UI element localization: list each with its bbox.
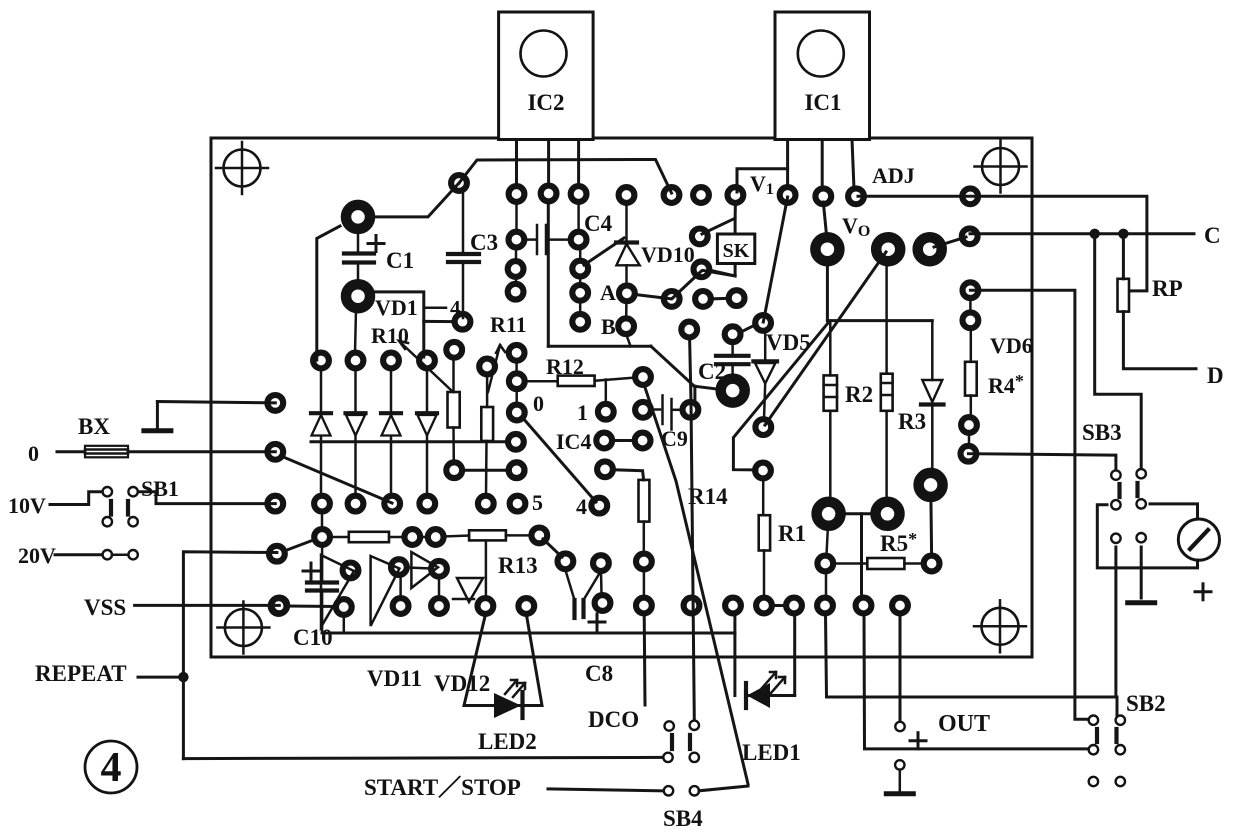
switch SB1 <box>103 487 138 526</box>
resistor R4 leads <box>969 328 971 446</box>
capacitor C2 <box>716 342 749 379</box>
ground symbol SB3 <box>1125 600 1157 605</box>
svg-text:20V: 20V <box>18 543 56 568</box>
wire pin pad to SK <box>734 203 737 218</box>
wire R4 pad to SB3 <box>968 454 1116 470</box>
svg-text:4: 4 <box>576 494 587 519</box>
mounting hole top-left <box>216 142 268 194</box>
svg-text:START／STOP: START／STOP <box>364 774 521 800</box>
pads: bottom row left <box>271 598 534 615</box>
resistor R3 body <box>881 374 893 411</box>
svg-text:R1: R1 <box>778 521 806 546</box>
wire C junction to SB3 <box>1095 234 1142 469</box>
plus mark OUT <box>910 733 926 749</box>
wire column x580 links <box>579 247 582 314</box>
pads: mid row 568 <box>343 559 447 578</box>
pads: diode row tops <box>313 342 495 375</box>
pads: R1/VD5 chain <box>755 419 939 571</box>
svg-text:R3: R3 <box>898 409 926 434</box>
svg-text:4: 4 <box>101 745 122 791</box>
pad wire bend <box>451 175 467 191</box>
capacitor C1 <box>344 230 374 283</box>
potentiometer RP body <box>1118 279 1130 312</box>
svg-text:VD1: VD1 <box>375 295 418 320</box>
svg-text:C3: C3 <box>470 230 498 255</box>
pad B <box>618 318 634 334</box>
wire OUT minus <box>864 614 1089 749</box>
potentiometer RP lead top <box>1122 234 1125 279</box>
wire 0 input to pad <box>57 450 275 453</box>
wire pad to VD10 anode <box>584 238 624 265</box>
diode VD12 pair <box>411 552 483 602</box>
ground symbol OUT <box>884 770 916 794</box>
svg-text:0: 0 <box>533 391 544 416</box>
open contact pair 20V <box>103 550 138 559</box>
wire big pad2 to pad <box>355 309 356 353</box>
capacitor C10 <box>307 545 337 633</box>
wire pad pair row537 <box>420 536 428 539</box>
pads: row 537 <box>314 528 547 545</box>
capacitor C4 <box>524 225 571 254</box>
voltage regulator IC1 package <box>775 12 870 140</box>
svg-text:LED1: LED1 <box>742 740 801 765</box>
wire R5 left pad links <box>826 525 828 597</box>
net from IC2 pin2 to C2/C9 junction <box>548 202 694 386</box>
wire VSS to pad <box>135 604 280 607</box>
LED2 symbol <box>494 680 525 718</box>
svg-text:VSS: VSS <box>84 595 126 620</box>
wire to SB4 middle-left <box>183 757 663 758</box>
wire SB3 bottom-right to ground <box>1140 547 1143 598</box>
resistor R4 body <box>965 362 977 396</box>
wire pad link <box>600 571 603 594</box>
svg-text:C: C <box>1204 223 1221 248</box>
wire big pad to C rail pad <box>934 237 966 247</box>
wire R14 to pads chain <box>643 522 646 597</box>
svg-text:SB2: SB2 <box>1126 691 1166 716</box>
wire SB1 to board pad <box>138 492 275 504</box>
svg-text:VD11: VD11 <box>367 666 422 691</box>
wire REPEAT <box>138 676 183 679</box>
meter symbol <box>1178 519 1219 560</box>
svg-text:BX: BX <box>78 414 110 439</box>
wire C1 pad down-left leg <box>317 226 340 360</box>
potentiometer RP lead bottom to D <box>1123 312 1196 369</box>
plus mark battery <box>1195 584 1211 600</box>
resistor R14 body <box>639 480 650 522</box>
capacitor C9 <box>651 395 682 429</box>
svg-text:VD6: VD6 <box>990 333 1033 358</box>
wire VSS pad to pad <box>288 605 335 609</box>
svg-text:0: 0 <box>28 441 39 466</box>
wire diagonal to SB4 bottom <box>645 386 749 784</box>
mounting hole bottom-left <box>217 602 269 654</box>
svg-text:C1: C1 <box>386 248 414 273</box>
LED1 symbol <box>746 672 785 708</box>
wire SB3 mid-right to meter <box>1150 504 1198 519</box>
resistor R2 body <box>824 375 837 410</box>
wire column link x322 <box>321 512 324 528</box>
diode VD10 <box>616 203 640 285</box>
arrow R11 to resistor <box>488 345 505 392</box>
wire R12 drop to pad 1 <box>605 380 608 404</box>
battery box SB3 <box>1097 505 1197 568</box>
svg-text:IC4: IC4 <box>556 429 591 454</box>
big pads <box>346 205 943 526</box>
wire ADJ rail to RP wiper <box>858 196 1147 291</box>
switch SB2 <box>1089 716 1125 787</box>
svg-text:VD10: VD10 <box>641 242 695 267</box>
wire 0 net line <box>311 440 508 443</box>
speaker SK cone <box>702 218 735 276</box>
svg-text:IC2: IC2 <box>527 90 564 115</box>
link pads right column <box>969 298 972 313</box>
LED2 legs <box>464 613 542 706</box>
wire OUT rail <box>826 614 1118 715</box>
switch SB4 <box>663 721 699 796</box>
svg-text:R13: R13 <box>498 553 538 578</box>
pads: right column <box>961 228 979 461</box>
plus mark C10 <box>303 563 319 579</box>
resistor R1 body <box>759 515 770 550</box>
svg-text:C10: C10 <box>293 625 333 650</box>
PCB board outline <box>211 138 1032 657</box>
wire between output big pads <box>839 512 876 515</box>
svg-text:D: D <box>1207 363 1224 388</box>
svg-text:C4: C4 <box>584 211 613 236</box>
wire 20V to open contacts <box>55 553 103 556</box>
plus mark C1 <box>368 236 384 252</box>
wire pin3 to C4 pad <box>577 202 580 231</box>
capacitor C8 <box>565 570 601 618</box>
wire pin2 to VO pad <box>823 202 827 240</box>
svg-text:C8: C8 <box>585 661 613 686</box>
resistor R5 body <box>867 558 904 569</box>
svg-text:VD12: VD12 <box>434 671 490 696</box>
wire V1 pad diagonal to VD5 <box>763 197 787 322</box>
wire bus horizontal <box>827 319 932 322</box>
wire SK lower pad to cone <box>709 270 735 276</box>
wire IC4 pads link <box>613 439 634 442</box>
svg-text:OUT: OUT <box>938 711 990 737</box>
svg-text:SB4: SB4 <box>663 806 703 831</box>
svg-text:LED2: LED2 <box>478 729 537 754</box>
voltage regulator IC2 package <box>499 12 593 140</box>
svg-text:R11: R11 <box>490 312 527 337</box>
svg-text:SB1: SB1 <box>141 476 179 501</box>
resistor R1 leads <box>762 478 765 597</box>
resistor R2 leads <box>829 321 832 502</box>
wire pads row 298 <box>711 297 729 301</box>
svg-text:ADJ: ADJ <box>872 163 915 188</box>
wire big pad diagonal to VD5 pad <box>765 252 886 425</box>
rectifier diodes VD1-VD4 row <box>311 369 437 496</box>
mounting hole top-right <box>975 141 1027 193</box>
wire R13 pad diagonal to pad <box>543 539 562 557</box>
wire bend up to top rail <box>459 160 672 194</box>
junction dot C rail 1 <box>1090 229 1100 239</box>
wire OUT plus terminal <box>899 614 902 722</box>
svg-text:R2: R2 <box>845 382 873 407</box>
wire junction to C2 big pad <box>694 386 721 389</box>
svg-text:DCO: DCO <box>588 707 639 732</box>
wire pad to R14 <box>614 470 644 480</box>
pads: column x516 <box>508 232 526 512</box>
svg-text:REPEAT: REPEAT <box>35 661 127 686</box>
svg-text:A: A <box>600 280 616 305</box>
resistor R12 body <box>558 376 595 386</box>
arrow R10 to resistor <box>399 341 452 391</box>
wire VD1 box to pin4 pad <box>426 306 446 309</box>
wire junction down to C9 pad <box>693 386 696 401</box>
figure number 4 <box>85 741 137 793</box>
pads: IC2/IC1 pin row <box>509 186 978 205</box>
wire IC2 pin1 column links <box>515 202 518 284</box>
wire C2 top pad to VD5 top pad <box>740 325 756 333</box>
pads: bottom row board <box>595 595 908 613</box>
wire V1 bracket <box>737 169 788 192</box>
diagonal pad 0-input to pad row <box>281 456 392 503</box>
wire C1 top pad to C3 top pad and IC2 area <box>376 183 459 217</box>
wire VO bus vertical <box>826 261 829 321</box>
LED1 leads <box>735 614 795 696</box>
diode VD5 <box>753 331 777 419</box>
pads: row 503 <box>314 462 524 511</box>
resistor body row537 left <box>330 532 404 542</box>
pads: IC4 area <box>591 369 698 513</box>
terminal circle OUT ground <box>895 760 904 769</box>
VD1 outline box <box>368 292 424 357</box>
svg-text:R12: R12 <box>546 354 584 379</box>
pad A <box>619 285 635 301</box>
wire R13 to pad below <box>485 542 488 597</box>
resistor R3 leads <box>885 261 888 502</box>
switch SB3 <box>1111 469 1146 543</box>
ground symbol near BX <box>141 402 173 431</box>
wire A to B link <box>625 301 628 318</box>
wire START/STOP to SB4 <box>548 789 663 791</box>
resistor R12 leads <box>525 378 635 382</box>
pad C3 bottom pin4 <box>455 314 471 330</box>
wire SB3 bottom-left riser <box>1114 547 1117 697</box>
junction dot REPEAT <box>178 672 188 682</box>
resistor body R11 (vertical) <box>481 375 493 496</box>
wire R5 right pad to diode pad <box>929 497 933 555</box>
IC2 pin leads <box>517 140 579 185</box>
speaker SK box <box>717 234 754 264</box>
pads: column x580 and C4 <box>571 232 588 330</box>
svg-text:SK: SK <box>723 240 750 262</box>
wire column x516 lower links <box>515 360 518 404</box>
wire VD1 box to C3 pad <box>424 320 455 323</box>
svg-text:VD5: VD5 <box>766 330 811 355</box>
svg-text:1: 1 <box>577 400 588 425</box>
svg-text:B: B <box>601 314 616 339</box>
wire ground to pad <box>157 402 275 403</box>
fuse BX <box>85 446 128 458</box>
pads: center low <box>558 553 652 571</box>
wire A pad to SK pads <box>635 271 701 299</box>
wire net B riser to SB4 <box>690 338 695 720</box>
resistor body under R11 arrow (vertical) <box>448 358 460 462</box>
wire 10V to SB1 <box>50 492 102 505</box>
mounting hole bottom-right <box>974 600 1026 652</box>
wire REPEAT pad diagonal <box>283 539 316 552</box>
diagonal 0 pad to pad 4 <box>522 417 596 502</box>
svg-text:RP: RP <box>1152 276 1183 301</box>
wire B pad hook to net <box>626 334 630 346</box>
diode VD6 symbol <box>921 321 944 473</box>
pads: left block <box>267 395 287 613</box>
wire DCO stub <box>643 614 647 705</box>
svg-text:SB3: SB3 <box>1082 420 1122 445</box>
wire under-board C10 to LED1 column <box>322 632 735 635</box>
wire SB4 to diagonal riser <box>699 786 748 791</box>
wire pad down to under-board wire <box>343 615 346 633</box>
terminal circle OUT plus <box>895 722 904 731</box>
resistor R5 leads <box>834 562 923 565</box>
wire C rail <box>970 232 1194 235</box>
wire pads pair row470 <box>462 469 509 472</box>
wire bus diagonal to C2 big pad <box>733 322 829 470</box>
resistor R13 body <box>444 530 532 540</box>
pads: C2/VD5 tops <box>681 315 771 342</box>
plus mark C8 <box>589 614 605 630</box>
IC1 pin leads <box>788 140 854 189</box>
wire pad pair link <box>772 604 786 607</box>
wire mid vertical to pad <box>860 514 863 596</box>
junction dot C rail 2 <box>1118 229 1128 239</box>
capacitor C3 <box>448 192 479 318</box>
diode VD11 pair <box>321 555 399 627</box>
svg-text:R14: R14 <box>688 484 728 509</box>
svg-text:5: 5 <box>532 490 543 515</box>
svg-text:IC1: IC1 <box>804 90 841 115</box>
pads: SK group <box>664 229 745 307</box>
svg-text:10V: 10V <box>8 493 46 518</box>
wire REPEAT riser to pad <box>183 552 277 759</box>
wire pad to SB2 riser <box>970 290 1089 719</box>
wire pads mid row links <box>401 568 439 599</box>
